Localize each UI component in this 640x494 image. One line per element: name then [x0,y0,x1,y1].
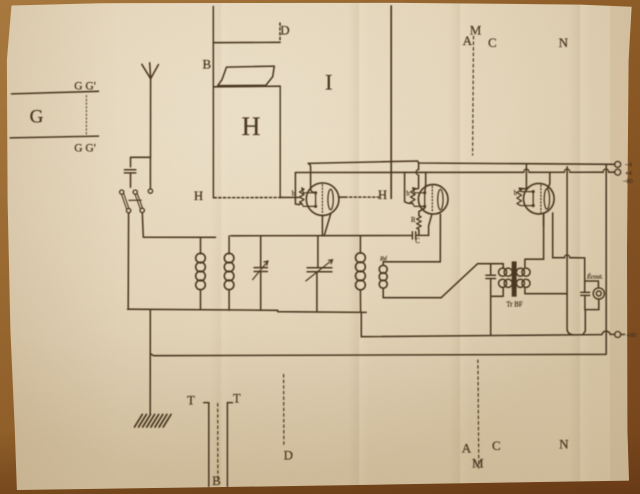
svg-text:C: C [415,238,420,245]
svg-text:D: D [280,23,289,38]
svg-text:B: B [202,57,211,72]
svg-text:A: A [463,33,473,48]
svg-text:G G': G G' [74,81,96,93]
svg-text:H: H [194,189,203,203]
svg-text:Écout.: Écout. [586,273,603,281]
svg-text:A: A [462,441,472,456]
svg-text:D: D [284,448,293,463]
svg-text:R: R [411,217,416,224]
svg-text:H: H [242,112,261,141]
svg-text:T: T [233,392,241,406]
svg-text:C: C [488,35,497,50]
svg-text:b: b [406,190,410,197]
svg-text:b: b [292,191,296,198]
svg-text:C: C [492,438,501,453]
svg-text:Tr BF: Tr BF [506,302,522,309]
svg-text:G G': G G' [74,143,96,155]
svg-text:N: N [559,437,569,452]
svg-text:M: M [472,455,484,470]
svg-text:H: H [378,188,387,202]
svg-text:Ré: Ré [379,255,388,262]
svg-text:B: B [212,473,221,488]
svg-text:N: N [559,35,569,50]
svg-text:b: b [514,190,518,197]
svg-text:−4: −4 [625,163,632,169]
svg-text:+80: +80 [627,333,637,339]
svg-text:I: I [325,70,332,95]
svg-text:−80: −80 [623,179,633,185]
svg-text:T: T [187,394,195,408]
svg-text:G: G [30,107,44,128]
svg-text:+4: +4 [625,171,632,177]
